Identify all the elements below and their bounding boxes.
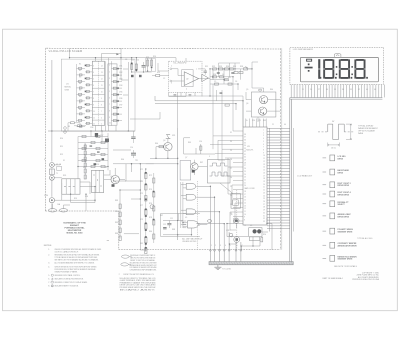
svg-text:U5: U5: [185, 217, 187, 219]
svg-text:R43: R43: [263, 120, 266, 122]
svg-text:C11: C11: [170, 218, 173, 220]
LCD colon dot: [336, 66, 338, 68]
crystal Y1: [249, 237, 259, 241]
svg-text:1: 1: [211, 245, 212, 247]
svg-text:24: 24: [263, 195, 265, 197]
resistor R90: [261, 238, 263, 242]
svg-text:14: 14: [244, 202, 246, 204]
svg-text:48: 48: [374, 89, 376, 91]
transistor Q9: [234, 237, 240, 243]
ellipse callout B: [121, 263, 129, 266]
svg-text:13: 13: [244, 205, 246, 207]
backplane driver box: [251, 92, 276, 117]
svg-text:R64: R64: [155, 143, 158, 145]
wires Q7: [191, 160, 208, 175]
svg-text:R6: R6: [79, 96, 81, 98]
diode CR10: [102, 158, 105, 160]
svg-text:5: 5: [263, 141, 264, 143]
diodes CR1-CR5: [85, 65, 119, 122]
box oscillator: [180, 161, 191, 181]
svg-text:Q7: Q7: [185, 157, 187, 159]
op-amp U2b: [202, 74, 209, 81]
svg-text:R3: R3: [79, 77, 81, 79]
wire chain rail: [146, 169, 154, 252]
svg-text:30: 30: [263, 212, 265, 214]
transistor Q4: [164, 143, 172, 151]
svg-text:12: 12: [101, 79, 103, 81]
svg-text:R87: R87: [160, 215, 163, 217]
svg-text:17: 17: [263, 175, 265, 177]
svg-text:V+: V+: [246, 120, 248, 122]
resistors R5-R9: [78, 67, 82, 127]
LCD top tab DS1: [334, 53, 341, 57]
wires switch to Q3: [104, 168, 125, 180]
svg-text:13: 13: [101, 72, 103, 74]
svg-text:R23: R23: [146, 57, 149, 59]
svg-text:R53: R53: [96, 164, 99, 166]
svg-text:21: 21: [263, 187, 265, 189]
connector pin pads: [210, 249, 212, 251]
display backplane bus (vertical): [290, 98, 292, 262]
svg-text:R74: R74: [149, 189, 152, 191]
svg-text:U6: U6: [250, 225, 252, 227]
svg-text:T1: T1: [56, 173, 58, 175]
gate input wires: [181, 185, 186, 228]
resistor chain R63 (vertical): [84, 144, 86, 180]
svg-text:9: 9: [263, 152, 264, 154]
svg-text:39: 39: [350, 89, 352, 91]
svg-text:R88: R88: [172, 229, 175, 231]
LCD digit 1: [318, 59, 320, 68]
LCD polarity sign: [305, 67, 313, 69]
svg-text:R8: R8: [79, 109, 81, 111]
svg-text:SEE PARTS LIST FOR STANDARD VA: SEE PARTS LIST FOR STANDARD VALUES AND T…: [55, 259, 99, 262]
svg-text:8: 8: [263, 150, 264, 152]
svg-text:R52: R52: [60, 154, 63, 156]
op-amp module dashed box: [169, 61, 202, 92]
transistor Q7: [191, 163, 199, 171]
display board dashed boundary: [279, 48, 281, 250]
svg-text:R32: R32: [212, 66, 215, 68]
svg-text:8: 8: [244, 220, 245, 222]
svg-text:24: 24: [230, 195, 232, 197]
LCD low-battery annunciator: [306, 59, 312, 62]
svg-text:Q6: Q6: [246, 103, 248, 105]
svg-text:WAVE: WAVE: [358, 132, 364, 135]
title block: [63, 221, 86, 234]
svg-text:R90: R90: [263, 234, 266, 236]
svg-text:R65: R65: [188, 142, 191, 144]
svg-text:PART OF MAN 8060A-1: PART OF MAN 8060A-1: [323, 277, 343, 280]
wire bottom cluster: [68, 123, 86, 131]
node A flag: [116, 53, 119, 55]
svg-text:16 ms: 16 ms: [331, 148, 336, 150]
svg-text:11: 11: [93, 118, 95, 120]
svg-text:10: 10: [109, 123, 111, 125]
ground symbol: [214, 265, 221, 270]
svg-text:32: 32: [244, 151, 246, 153]
LCD colon dot: [351, 66, 353, 68]
svg-text:DRIVE DRIVE: DRIVE DRIVE: [338, 185, 350, 187]
svg-text:VR1: VR1: [172, 135, 175, 137]
copyright block: [352, 271, 379, 281]
svg-text:33: 33: [334, 89, 336, 91]
wire op-amp to mid: [121, 62, 186, 128]
svg-text:DRIVE: DRIVE: [338, 158, 344, 160]
svg-text:R44: R44: [270, 89, 273, 91]
svg-text:22: 22: [230, 213, 232, 215]
wires array rails: [78, 131, 108, 179]
svg-text:ORDERING INFORMATION.: ORDERING INFORMATION.: [130, 269, 157, 272]
svg-text:R79: R79: [140, 219, 143, 221]
svg-text:32: 32: [263, 218, 265, 220]
svg-text:2: 2: [215, 245, 216, 247]
wire integrate node: [169, 69, 210, 96]
svg-text:28: 28: [263, 207, 265, 209]
svg-text:C20: C20: [252, 120, 255, 122]
legend item 2: [323, 171, 327, 173]
svg-text:3: 3: [263, 135, 264, 137]
resistor R64: [159, 146, 163, 148]
junction: [131, 163, 132, 164]
svg-text:27: 27: [244, 165, 246, 167]
connector pad P1: [207, 220, 211, 223]
IC U3 pin numbers: [244, 130, 265, 224]
svg-text:UNLESS NOTED: UNLESS NOTED: [182, 241, 197, 243]
legend item 3: [323, 184, 327, 186]
svg-text:Q5: Q5: [246, 89, 248, 91]
gate U5: [187, 221, 198, 228]
svg-text:27: 27: [263, 204, 265, 206]
legend item 1: [323, 157, 327, 159]
svg-text:R2: R2: [79, 70, 81, 72]
svg-text:NOTES: NOTES: [44, 245, 52, 247]
input jack COM: [49, 198, 54, 203]
svg-text:33: 33: [263, 221, 265, 223]
connector bar J1: [209, 262, 293, 265]
svg-text:ALL VOLTAGES MEASURED WITH RES: ALL VOLTAGES MEASURED WITH RESPECT TO CO…: [55, 261, 95, 264]
LCD connector pins: [291, 85, 384, 98]
time dimension: [328, 143, 340, 147]
svg-text:37: 37: [244, 137, 246, 139]
svg-text:4: 4: [93, 72, 94, 74]
resistor R21 (vertical): [131, 62, 133, 72]
dash marker: [107, 240, 109, 242]
wire left rail: [51, 60, 53, 210]
capacitor C2: [204, 71, 207, 72]
svg-text:21: 21: [244, 182, 246, 184]
terminal COM ellipse: [59, 209, 67, 212]
terminal 10A ellipse: [48, 209, 56, 212]
svg-text:29: 29: [230, 150, 232, 152]
svg-text:CR6: CR6: [90, 127, 93, 129]
svg-text:27: 27: [318, 89, 320, 91]
svg-text:VIEWED FROM REAR OF WAFER.: VIEWED FROM REAR OF WAFER.: [55, 271, 78, 274]
svg-text:926N: 926N: [65, 89, 70, 91]
display backplane bus (horizontal): [290, 98, 383, 100]
resistor R22 (vertical): [135, 62, 137, 72]
op-amp input pins: [170, 68, 172, 70]
svg-text:R50: R50: [60, 138, 63, 140]
svg-text:26: 26: [230, 177, 232, 179]
svg-text:R37: R37: [228, 77, 231, 79]
svg-text:8060A/7: 8060A/7: [70, 224, 80, 227]
capacitor C10: [131, 153, 136, 155]
svg-text:CR6: CR6: [119, 98, 122, 100]
IC U1 decade counter: [92, 61, 104, 125]
transistors in sub-board: [253, 229, 257, 233]
transistor Q3: [111, 175, 119, 183]
LCD digit 8 (hundreds): [325, 59, 333, 61]
svg-text:PRINTED IN USA LITHO IN USA: PRINTED IN USA LITHO IN USA: [352, 278, 379, 281]
svg-text:R55: R55: [74, 198, 77, 200]
svg-text:22: 22: [263, 190, 265, 192]
svg-text:R73: R73: [140, 181, 143, 183]
svg-text:CR7: CR7: [119, 105, 122, 107]
svg-text:15: 15: [263, 170, 265, 172]
svg-text:LCD READOUT: LCD READOUT: [297, 174, 313, 177]
capacitor C1: [142, 66, 146, 68]
gate outputs to connector: [195, 186, 229, 250]
svg-text:25: 25: [263, 198, 265, 200]
svg-text:C8: C8: [125, 59, 127, 61]
svg-text:Q9: Q9: [231, 236, 233, 238]
svg-text:16: 16: [263, 172, 265, 174]
svg-text:3: 3: [93, 66, 94, 68]
svg-text:29: 29: [263, 210, 265, 212]
svg-text:R25: R25: [157, 72, 160, 74]
svg-text:11: 11: [101, 85, 103, 87]
svg-text:R67: R67: [200, 162, 203, 164]
svg-text:3: 3: [171, 83, 172, 85]
IC U1 pin numbers: [93, 65, 111, 126]
resistor ladder R71-R82: [145, 173, 155, 254]
svg-text:7: 7: [196, 69, 197, 71]
svg-text:CR2: CR2: [119, 72, 122, 74]
svg-text:SEGMENT DRIVE: SEGMENT DRIVE: [338, 259, 354, 261]
wires chain links: [113, 164, 153, 250]
svg-text:CR1: CR1: [119, 66, 122, 68]
wires counter top: [70, 48, 177, 62]
svg-text:C10: C10: [130, 147, 133, 149]
svg-text:CR4: CR4: [119, 85, 122, 87]
clock sub box: [231, 194, 240, 209]
schematic frame border: [45, 48, 280, 249]
svg-text:35: 35: [244, 142, 246, 144]
svg-text:F1: F1: [63, 160, 65, 162]
wires op-amp: [169, 58, 210, 97]
capacitor C11: [167, 223, 171, 225]
svg-text:9: 9: [244, 217, 245, 219]
svg-text:SEE NOTE 7 FOR DETAILS: SEE NOTE 7 FOR DETAILS: [334, 265, 358, 268]
svg-text:R31: R31: [205, 66, 208, 68]
fuse F1: [49, 169, 54, 174]
svg-text:R1: R1: [79, 64, 81, 66]
wires U5: [163, 221, 207, 235]
resistors R31-R41: [213, 68, 244, 85]
connector comb wires: [210, 242, 241, 262]
svg-text:INDICATES CONNECTION TO DISPLA: INDICATES CONNECTION TO DISPLAY BOARD.: [55, 281, 88, 284]
svg-text:10: 10: [244, 214, 246, 216]
svg-text:28: 28: [244, 162, 246, 164]
svg-text:42: 42: [358, 89, 360, 91]
svg-text:4: 4: [263, 138, 264, 140]
IC U3 supply pins: [246, 119, 266, 128]
battery label box BT1: [146, 58, 156, 71]
wires counter bottom drop: [96, 62, 129, 131]
svg-text:36: 36: [342, 89, 344, 91]
diode CR6: [95, 133, 98, 137]
svg-text:A/D CONV: A/D CONV: [246, 187, 256, 190]
svg-text:2: 2: [263, 132, 264, 134]
resistors R11-R20: [86, 64, 116, 124]
resistor R23 (vertical): [147, 58, 149, 71]
svg-text:24: 24: [244, 174, 246, 176]
svg-text:33: 33: [244, 148, 246, 150]
wire reference high: [155, 96, 243, 127]
svg-text:R54: R54: [85, 196, 88, 198]
op-amp U2: [184, 72, 198, 86]
counter input wires: [85, 65, 122, 123]
IC U3 A/D converter 7106: [243, 127, 267, 225]
svg-text:COM: COM: [44, 195, 49, 197]
svg-text:11: 11: [244, 211, 246, 213]
svg-text:C6: C6: [235, 81, 237, 83]
counter bus wires: [105, 61, 111, 126]
note symbols: [51, 274, 53, 276]
svg-text:BOARD ASSY.: BOARD ASSY.: [120, 288, 157, 291]
resistor R10a: [78, 125, 82, 127]
capacitor C16: [97, 152, 100, 153]
svg-text:C2: C2: [163, 78, 165, 80]
dashed boundary gates: [197, 181, 199, 250]
ellipse callout A: [122, 255, 130, 258]
svg-text:R75: R75: [140, 193, 143, 195]
gate U4b: [186, 194, 196, 200]
svg-text:R83: R83: [115, 200, 118, 202]
svg-text:10: 10: [101, 92, 103, 94]
svg-text:10: 10: [93, 111, 95, 113]
waveform dimension arrow: [346, 124, 352, 139]
svg-text:23: 23: [244, 177, 246, 179]
legend item 5: [323, 203, 327, 205]
svg-text:TO LCD BD: TO LCD BD: [222, 269, 232, 271]
svg-text:CR5: CR5: [119, 92, 122, 94]
svg-text:34: 34: [244, 145, 246, 147]
svg-text:16: 16: [244, 197, 246, 199]
svg-text:23: 23: [230, 204, 232, 206]
svg-text:Q3: Q3: [110, 176, 112, 178]
svg-text:CR3: CR3: [119, 79, 122, 81]
svg-text:DRIVE DRIVE: DRIVE DRIVE: [338, 216, 350, 218]
shunt network box: [62, 179, 80, 194]
svg-text:29: 29: [244, 160, 246, 162]
wire feedback: [198, 69, 205, 75]
capacitor C5a: [174, 95, 177, 96]
svg-text:5: 5: [230, 245, 231, 247]
svg-text:R22: R22: [136, 60, 139, 62]
svg-text:CR7: CR7: [100, 135, 103, 137]
chopper inner box: [182, 70, 193, 87]
resistor R25: [156, 74, 160, 76]
svg-text:INDICATES 1% METAL FILM RESIST: INDICATES 1% METAL FILM RESISTOR.: [55, 277, 84, 280]
svg-text:2: 2: [171, 66, 172, 68]
svg-text:6: 6: [237, 245, 238, 247]
diode CR11: [94, 163, 97, 165]
svg-text:C12: C12: [163, 224, 166, 226]
wires bottom right: [227, 218, 272, 250]
wires jack links: [53, 165, 96, 209]
svg-text:24: 24: [310, 89, 312, 91]
svg-text:21: 21: [272, 124, 274, 126]
svg-text:31: 31: [263, 215, 265, 217]
svg-text:R66: R66: [121, 159, 124, 161]
svg-text:LCD DISPLAY ASSY: LCD DISPLAY ASSY: [293, 48, 314, 51]
diode CR9: [139, 75, 142, 77]
svg-text:12: 12: [244, 208, 246, 210]
svg-text:ANNUNCIATOR DRIVE: ANNUNCIATOR DRIVE: [338, 245, 358, 248]
svg-text:R34: R34: [226, 66, 229, 68]
svg-text:R38: R38: [240, 66, 243, 68]
svg-text:MODEL NO. 8060: MODEL NO. 8060: [67, 233, 84, 235]
pad E1: [258, 89, 261, 91]
svg-text:MM74C: MM74C: [65, 87, 72, 89]
svg-text:Y1: Y1: [244, 225, 246, 227]
svg-text:SELECT: SELECT: [338, 204, 346, 206]
svg-text:26: 26: [244, 168, 246, 170]
svg-text:C21: C21: [258, 120, 261, 122]
svg-text:11: 11: [263, 158, 265, 160]
svg-text:R78: R78: [149, 217, 152, 219]
svg-text:C14: C14: [199, 141, 202, 143]
svg-text:31: 31: [230, 132, 232, 134]
svg-text:DRIVE DRIVE: DRIVE DRIVE: [338, 194, 350, 196]
svg-text:30: 30: [244, 157, 246, 159]
svg-text:17: 17: [244, 194, 246, 196]
svg-text:R21: R21: [131, 60, 134, 62]
transistor Q8: [234, 218, 239, 223]
svg-text:R86: R86: [115, 233, 118, 235]
legend item 6: [323, 215, 327, 217]
svg-text:R35: R35: [233, 66, 236, 68]
pointer line: [220, 183, 233, 194]
svg-text:3: 3: [220, 245, 221, 247]
resistor R24 (vertical): [151, 58, 153, 71]
svg-text:V2-DGL/7M-LCD SCHEM: V2-DGL/7M-LCD SCHEM: [49, 49, 83, 53]
svg-text:9: 9: [93, 105, 94, 107]
svg-text:S3: S3: [68, 126, 70, 128]
svg-text:U2: U2: [186, 79, 188, 81]
trimmer R42: [244, 68, 248, 70]
capacitor C4: [231, 72, 234, 73]
input jack mA: [50, 175, 55, 180]
LCD decimal points: [320, 77, 322, 79]
wire main horizontal rail: [48, 130, 135, 132]
svg-text:PORTABLE DIGITAL: PORTABLE DIGITAL: [65, 227, 86, 230]
svg-text:4: 4: [225, 245, 226, 247]
IC U1 latch column: [108, 64, 117, 125]
diode CR12: [229, 233, 232, 236]
label F1 fuse box: [57, 166, 62, 170]
svg-text:8: 8: [93, 98, 94, 100]
svg-text:12: 12: [93, 124, 95, 126]
resistor column R83: [119, 204, 121, 241]
gate rails: [181, 182, 183, 228]
svg-text:14: 14: [263, 167, 265, 169]
svg-text:INDICATES SAFETY ISOLATION.: INDICATES SAFETY ISOLATION.: [55, 285, 79, 288]
LCD digit 8 (tens): [341, 59, 349, 61]
svg-text:6: 6: [263, 144, 264, 146]
